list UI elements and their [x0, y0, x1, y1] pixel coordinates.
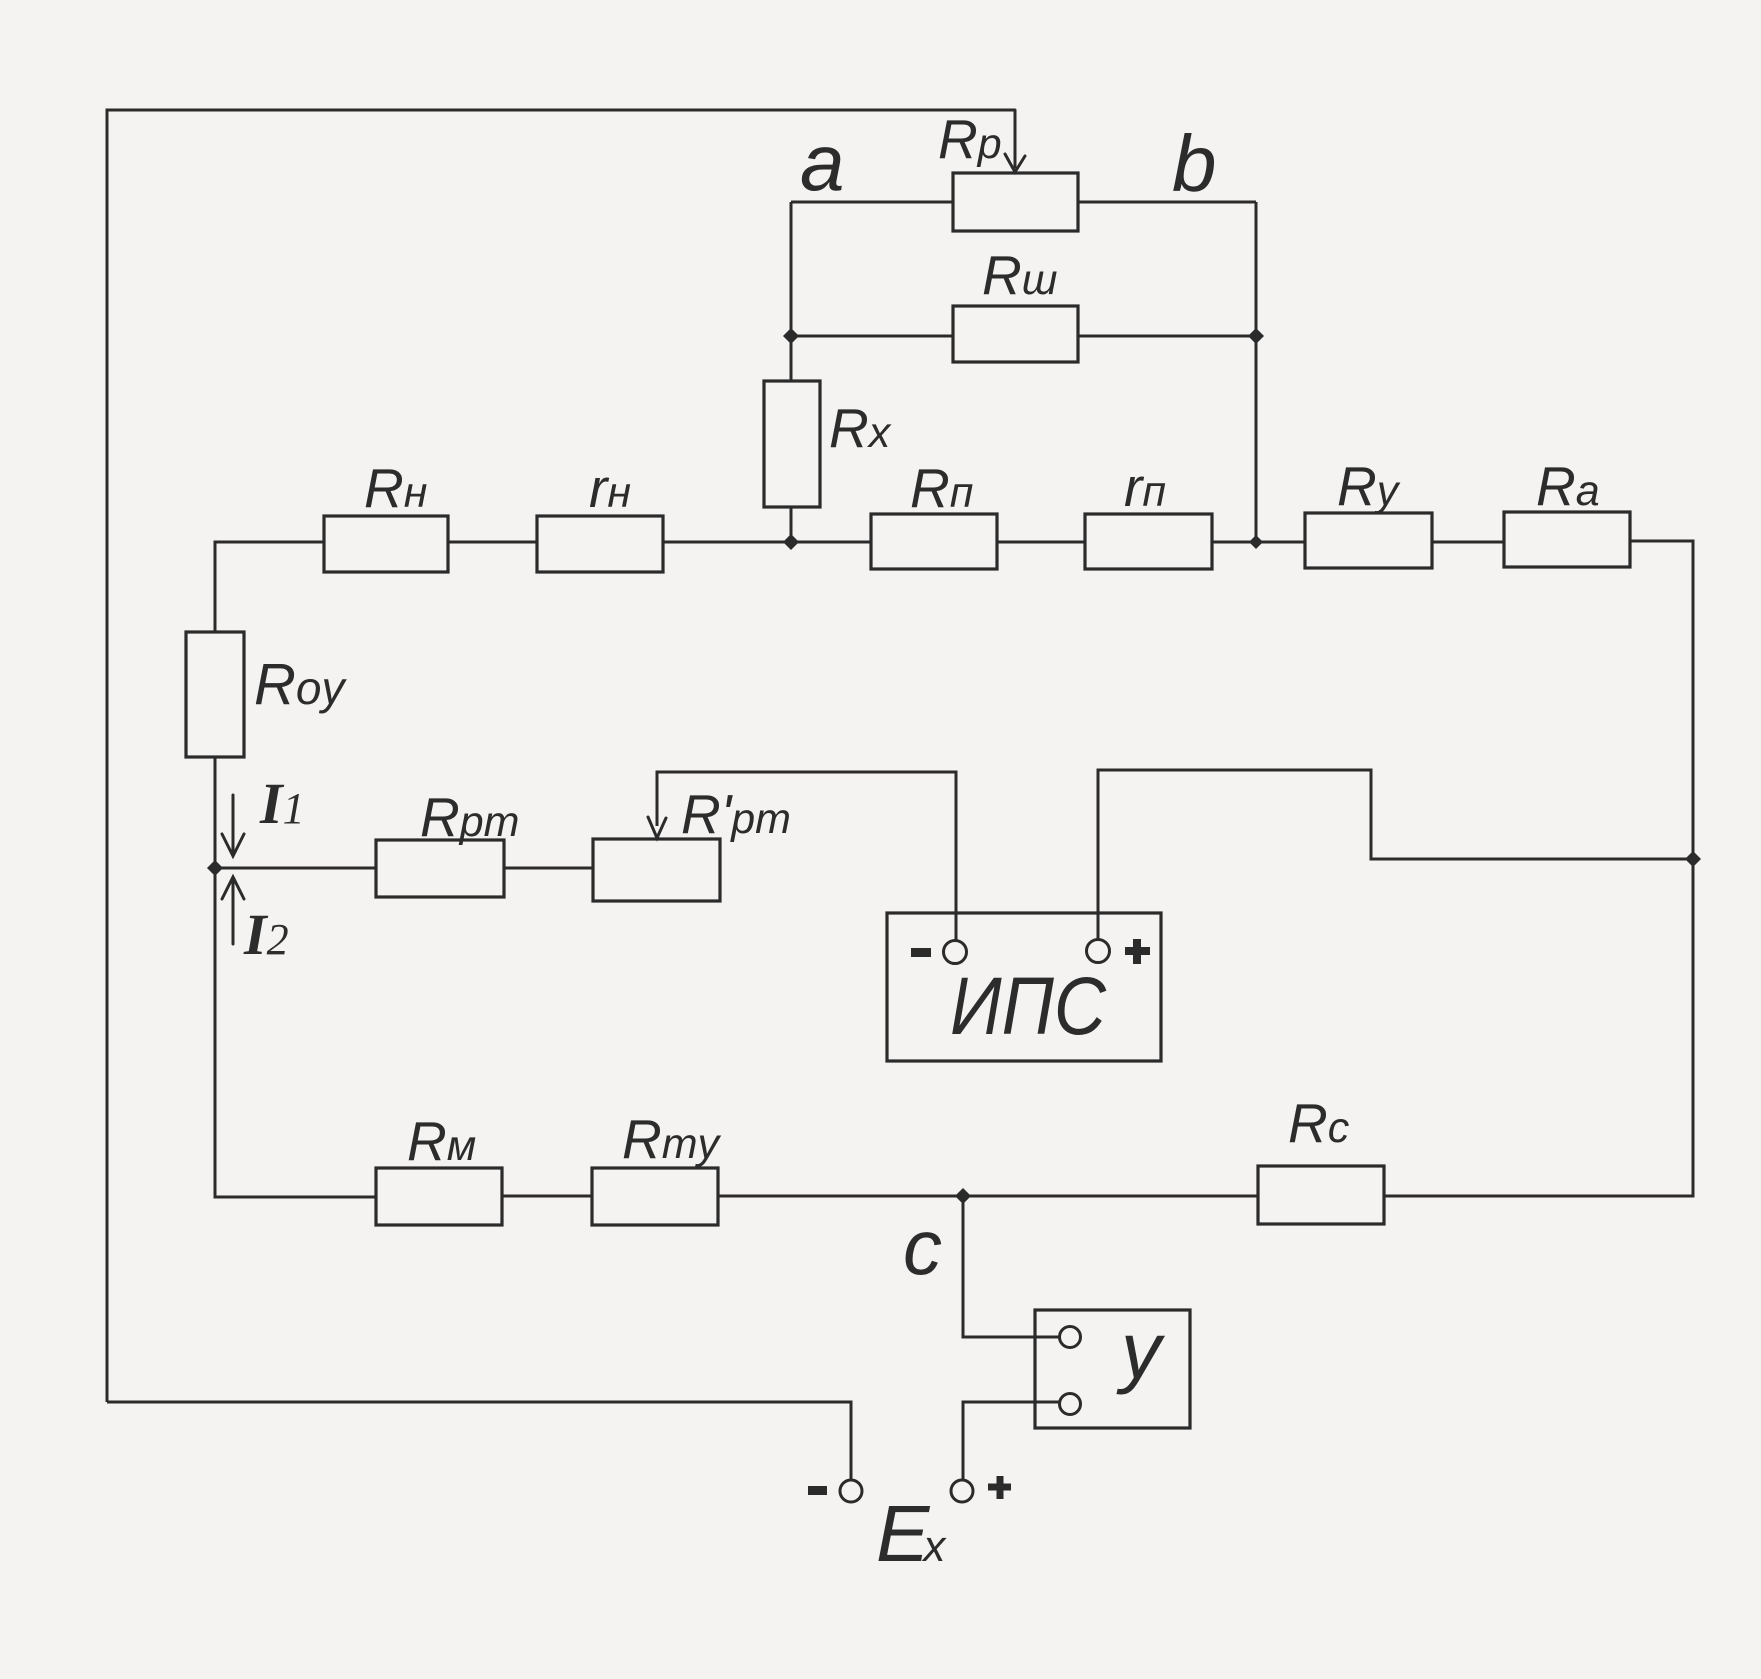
- power supply IPS box: [887, 913, 1161, 1061]
- label IPS minus sign: [911, 948, 931, 957]
- terminal U bottom: [1060, 1394, 1081, 1415]
- resistor Rx: [764, 381, 820, 507]
- wire Rx top lead: [790, 336, 793, 381]
- wire Rsh left: [791, 335, 953, 338]
- resistor Rpm2 (rheostat): [593, 839, 720, 901]
- terminal Ex minus: [840, 1480, 862, 1502]
- resistor Rmy: [592, 1168, 718, 1225]
- wire node a vertical: [790, 202, 793, 336]
- label IPS plus sign: [1125, 939, 1150, 964]
- resistor rn: [537, 516, 663, 572]
- amplifier U box: [1035, 1310, 1190, 1428]
- node a junction: [783, 328, 799, 344]
- wire left rail down: [215, 868, 376, 1197]
- wire Rx bottom lead: [790, 507, 793, 542]
- svg-text:у: у: [1116, 1306, 1166, 1395]
- resistor Ra: [1504, 512, 1630, 567]
- wire Rn to rn: [448, 541, 537, 544]
- svg-text:ИПС: ИПС: [950, 961, 1107, 1052]
- resistor Rc: [1258, 1166, 1384, 1224]
- svg-text:a: a: [800, 118, 845, 207]
- wire Roy bottom lead: [214, 757, 217, 868]
- resistor Rsh: [953, 306, 1078, 362]
- wire main row left end: [215, 542, 324, 632]
- wire Ry to Ra: [1432, 541, 1504, 544]
- arrow I1: [222, 795, 244, 856]
- resistor Rpi: [871, 514, 997, 569]
- resistor rpi: [1085, 514, 1212, 569]
- wire Ra to right rail: [1384, 541, 1693, 1196]
- arrow Rp wiper head: [1005, 110, 1025, 172]
- terminal U top: [1060, 1327, 1081, 1348]
- resistor Rm: [376, 1168, 502, 1225]
- wire node c drop: [963, 1196, 1060, 1337]
- resistor Roy: [186, 632, 244, 757]
- node Rx bottom junction: [783, 534, 799, 550]
- terminal IPS minus: [944, 941, 967, 964]
- wire Rmy to Rc: [718, 1195, 1258, 1198]
- svg-text:b: b: [1172, 119, 1217, 208]
- label Ex minus sign: [808, 1486, 827, 1495]
- wire outer bottom: [107, 1402, 851, 1480]
- terminal Ex plus: [951, 1480, 973, 1502]
- wire outer top: [107, 110, 1015, 1402]
- node c junction: [955, 1188, 971, 1204]
- wire Rpi to rpi: [997, 541, 1085, 544]
- arrow I2: [222, 877, 244, 944]
- resistor Ry: [1305, 513, 1432, 568]
- svg-text:c: c: [903, 1203, 942, 1291]
- svg-text:Roy: Roy: [254, 652, 347, 717]
- node b junction: [1248, 328, 1264, 344]
- wire Rp to b: [1078, 201, 1256, 204]
- wire b vertical: [1255, 202, 1258, 542]
- resistor Rn: [324, 516, 448, 572]
- wire rpi to Ry: [1212, 541, 1305, 544]
- resistor Rpm: [376, 840, 504, 897]
- node b main row junction: [1249, 535, 1263, 549]
- wire Rm to Rmy: [502, 1195, 592, 1198]
- wire node to Rpm: [215, 867, 376, 870]
- label Ex plus sign: [988, 1476, 1011, 1499]
- wire U bottom to Ex plus: [963, 1402, 1060, 1480]
- wire node a horizontal: [791, 201, 953, 204]
- arrow Rpm2 wiper head: [648, 817, 666, 838]
- wire rn to Rpi: [663, 541, 871, 544]
- node I junction: [207, 860, 223, 876]
- wire Rsh right: [1078, 335, 1256, 338]
- resistor Rp (potentiometer): [953, 173, 1078, 231]
- terminal IPS plus: [1087, 940, 1110, 963]
- wire Rpm2 wiper to IPS minus: [657, 772, 956, 941]
- wire Rpm to Rpm2: [504, 867, 593, 870]
- node right rail junction: [1685, 851, 1701, 867]
- wire IPS plus riser: [1098, 770, 1693, 940]
